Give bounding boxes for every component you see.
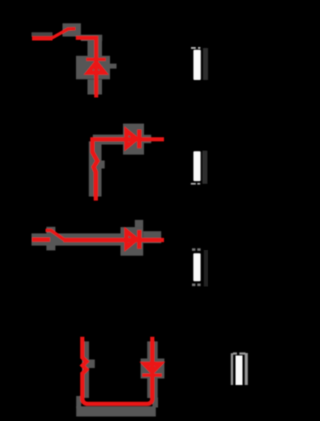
- diode D1 triangle (apex up): [88, 63, 104, 73]
- wire: S1 right contact, corner, down through D1: [76, 38, 96, 98]
- highlight halo: wire W3 left of D2: [93, 135, 123, 145]
- highlight halo: kink box: [87, 360, 95, 369]
- highlight halo: diode D3 body: [121, 227, 144, 256]
- highlight halo: diode D1 body: [76, 56, 110, 80]
- highlight halo: wire above D4: [147, 341, 158, 359]
- highlight halo: loop bottom wire: [76, 406, 156, 416]
- highlight halo: wire corner down to D1: [88, 41, 103, 57]
- highlight halo: D2 left pin: [119, 135, 123, 143]
- highlight halo: switch S1 body: [32, 32, 53, 36]
- highlight halo: wire below D1: [88, 80, 103, 95]
- diode D2 triangle (apex right): [126, 131, 136, 147]
- highlight halo: kink wire below W3 corner: [89, 141, 102, 196]
- highlight halo: diode D4 body: [141, 359, 165, 379]
- diode D3 triangle (apex right): [126, 231, 136, 247]
- lamp B4 lit plate with frame: [231, 352, 248, 385]
- diode D4 cathode bar: [142, 374, 161, 377]
- highlight halo: D2 right pin: [144, 135, 151, 143]
- wire: horizontal run through D2, corner down with kink: [92, 139, 164, 200]
- diode D1 cathode bar: [86, 58, 105, 61]
- highlight halo: loop left wire: [82, 341, 89, 398]
- wire: bottom-middle left lead of S2: [32, 238, 50, 242]
- wire: top-left lead of S1: [32, 36, 53, 40]
- switch S2 lever (open): [46, 230, 65, 240]
- lamp B3 lit plate: [192, 248, 208, 286]
- wire: S2 to D3 and right: [64, 238, 165, 242]
- highlight halo: switch S2 lever: [46, 227, 55, 251]
- diode D2 cathode bar: [137, 130, 141, 149]
- highlight halo: wire below D4: [147, 379, 158, 399]
- wire: bottom loop with kink, through D4: [82, 337, 152, 404]
- highlight halo: D3 right pin wire: [143, 231, 161, 243]
- diode D3 cathode bar: [137, 230, 141, 249]
- highlight halo: wire S1 to corner: [81, 35, 102, 41]
- highlight halo: bottom middle wire run: [32, 233, 124, 245]
- diode D4 triangle (apex down): [144, 364, 160, 372]
- highlight halo: D3 top stub: [135, 220, 143, 228]
- lamp B2 lit plate: [191, 151, 208, 185]
- highlight halo: diode D2 body: [123, 124, 144, 155]
- lamp B1 lit plate: [191, 47, 208, 80]
- switch S1 lever (open): [52, 29, 75, 38]
